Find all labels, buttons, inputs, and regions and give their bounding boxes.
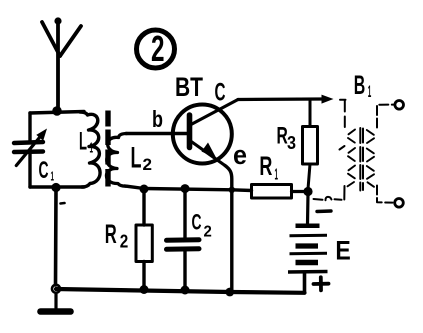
svg-text:C: C: [192, 210, 202, 235]
svg-text:e: e: [233, 140, 247, 170]
svg-text:R: R: [259, 151, 272, 181]
svg-text:C: C: [215, 79, 226, 107]
svg-text:L: L: [131, 142, 142, 175]
svg-text:1: 1: [90, 140, 94, 157]
svg-text:b: b: [152, 106, 163, 132]
svg-text:2: 2: [143, 155, 153, 174]
svg-text:E: E: [335, 236, 350, 266]
svg-text:1: 1: [51, 169, 55, 184]
svg-text:3: 3: [287, 133, 296, 153]
svg-text:B: B: [354, 70, 366, 100]
svg-text:C: C: [39, 157, 49, 184]
svg-text:L: L: [79, 128, 87, 156]
svg-text:1: 1: [368, 82, 372, 101]
svg-text:2: 2: [120, 231, 129, 251]
svg-text:BT: BT: [175, 72, 203, 102]
svg-text:2: 2: [151, 28, 165, 69]
svg-text:1: 1: [275, 167, 279, 184]
svg-text:2: 2: [204, 224, 212, 241]
svg-text:R: R: [105, 219, 117, 249]
